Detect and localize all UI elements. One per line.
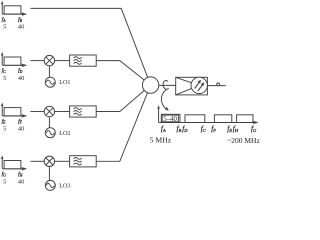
svg-text:5 MHz: 5 MHz: [150, 136, 172, 145]
svg-text:5: 5: [3, 178, 6, 185]
svg-text:LO3: LO3: [59, 183, 70, 190]
svg-text:5: 5: [3, 24, 6, 31]
svg-text:~200 MHz: ~200 MHz: [227, 136, 260, 145]
svg-text:LO1: LO1: [59, 79, 70, 86]
svg-text:LO2: LO2: [59, 130, 70, 137]
svg-text:40: 40: [18, 125, 24, 132]
svg-text:5: 5: [3, 75, 6, 82]
svg-text:40: 40: [18, 75, 24, 82]
svg-text:5: 5: [3, 125, 6, 132]
svg-text:40: 40: [18, 178, 24, 185]
svg-text:40: 40: [18, 24, 24, 31]
svg-text:5–40: 5–40: [163, 116, 177, 123]
